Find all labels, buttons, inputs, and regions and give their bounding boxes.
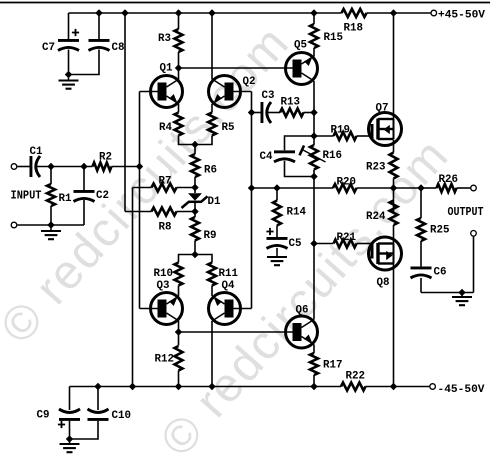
resistor R8 <box>152 208 177 216</box>
wire R1 bottom lead <box>50 206 52 225</box>
resistor R13 <box>280 109 304 117</box>
svg-text:C8: C8 <box>112 42 125 54</box>
resistor R12 <box>175 346 183 371</box>
label C9 <box>37 410 50 422</box>
wire C4 top branch <box>285 136 315 150</box>
svg-text:R5: R5 <box>222 122 235 134</box>
wire Q1 base lead <box>140 91 158 93</box>
junction dot C3 input node <box>248 109 255 116</box>
resistor R15 <box>310 24 318 48</box>
svg-text:Q5: Q5 <box>294 40 307 52</box>
wire R3 bottom lead <box>178 52 180 68</box>
junction dot R25 node <box>417 184 424 191</box>
label R1 <box>59 193 72 205</box>
resistor R20 <box>333 184 357 192</box>
svg-text:R3: R3 <box>158 33 171 45</box>
wire R25 to C6 <box>420 241 422 266</box>
svg-text:R7: R7 <box>159 176 172 188</box>
label C7 polarity + <box>72 29 79 36</box>
svg-text:C2: C2 <box>96 190 109 202</box>
label C4 <box>260 151 273 163</box>
wire R26 to output terminal <box>457 187 471 189</box>
label R23 <box>366 162 386 174</box>
ground output <box>452 293 472 306</box>
wire R13 right lead <box>304 112 315 114</box>
label R17 <box>323 360 343 372</box>
label C8 <box>112 42 125 54</box>
ground input <box>41 225 61 239</box>
resistor R5 <box>208 113 216 136</box>
junction dot C9-C10 ground node <box>66 435 73 442</box>
wire R3 top lead <box>178 13 180 29</box>
svg-text:R6: R6 <box>204 165 217 177</box>
terminal +45-50V <box>431 10 437 16</box>
wire R1 top lead <box>50 167 52 185</box>
resistor R26 <box>437 184 457 192</box>
capacitor C9 <box>59 409 80 421</box>
resistor R6 <box>191 154 199 177</box>
transistor Q5 <box>286 53 318 85</box>
wire C3 to R13 <box>268 112 280 114</box>
svg-text:R1: R1 <box>59 193 72 205</box>
label Q8 <box>377 277 390 289</box>
label C2 <box>96 190 109 202</box>
label R7 <box>159 176 172 188</box>
terminal input bottom <box>11 222 17 228</box>
wire R9 bottom lead <box>194 241 196 255</box>
junction dot C7-C8 ground node <box>65 71 72 78</box>
wire R20 to output node <box>357 187 394 189</box>
junction dot R16-C4 bottom node <box>310 173 317 180</box>
svg-text:R9: R9 <box>204 230 217 242</box>
resistor R16 trimmer <box>300 145 326 170</box>
label Q5 <box>294 40 307 52</box>
label C5 polarity + <box>266 228 273 235</box>
resistor R18 <box>342 9 367 17</box>
wire C2 bottom lead <box>83 200 85 225</box>
resistor R17 <box>310 353 318 375</box>
resistor R2 <box>93 163 112 171</box>
resistor R4 <box>175 113 183 136</box>
svg-text:R23: R23 <box>366 162 386 174</box>
wire C10 top lead <box>97 387 99 411</box>
wire Q6 emitter lead <box>313 345 315 354</box>
svg-text:C4: C4 <box>260 151 273 163</box>
wire -45V rail left segment <box>70 386 342 388</box>
wire C8 top lead <box>98 13 100 39</box>
junction dot R21 node <box>310 240 317 247</box>
wire R8 right lead <box>177 211 196 213</box>
resistor R21 <box>334 240 357 248</box>
transistor Q4 <box>209 293 241 325</box>
resistor R22 <box>341 383 366 391</box>
wire feedback bus <box>252 187 334 189</box>
resistor R10 <box>175 263 183 286</box>
label Q6 <box>296 305 309 317</box>
label R18 <box>344 23 364 35</box>
svg-text:R2: R2 <box>99 152 112 164</box>
junction dot R17 rail tap <box>310 383 317 390</box>
svg-text:Q8: Q8 <box>377 277 390 289</box>
svg-text:Q1: Q1 <box>160 63 173 75</box>
svg-text:Q4: Q4 <box>222 280 235 292</box>
resistor R9 <box>191 217 199 241</box>
wire C3 left lead <box>252 112 261 114</box>
svg-text:D1: D1 <box>208 196 221 208</box>
label R16 <box>323 150 343 162</box>
label -45-50V <box>438 384 485 396</box>
wire R15 top lead <box>313 13 315 24</box>
svg-text:R12: R12 <box>155 354 175 366</box>
junction dot R1 top <box>47 163 54 170</box>
wire R14 top lead <box>276 188 278 201</box>
svg-text:Q6: Q6 <box>296 305 309 317</box>
svg-text:R17: R17 <box>323 360 343 372</box>
wire R10 to Q3 collector <box>178 286 180 297</box>
capacitor C8 <box>89 39 110 51</box>
wire C4 bottom branch <box>285 161 315 177</box>
svg-text:R13: R13 <box>281 97 301 109</box>
svg-text:C5: C5 <box>289 238 302 250</box>
label R8 <box>159 222 172 234</box>
label OUTPUT <box>448 206 484 219</box>
svg-text:R21: R21 <box>337 232 357 244</box>
svg-text:R26: R26 <box>439 174 459 186</box>
label C3 <box>262 90 275 102</box>
wire tail to R10 <box>179 255 196 263</box>
junction dot R12 rail tap <box>175 383 182 390</box>
terminal -45-50V <box>430 384 436 390</box>
label R22 <box>346 371 366 383</box>
label R20 <box>337 177 357 189</box>
wire output node to R25 <box>394 187 422 189</box>
wire R6 bottom lead <box>194 177 196 188</box>
junction dot R19-C4 node <box>310 132 317 139</box>
wire C9 bottom lead <box>69 421 71 439</box>
wire C5 bottom lead <box>276 248 278 252</box>
wire R25 top lead <box>420 188 422 218</box>
junction dot R3 rail tap <box>175 9 182 16</box>
wire input to C1 <box>17 166 29 168</box>
junction dot R8 rail tap <box>121 9 128 16</box>
junction dot Q4 rail tap <box>208 383 215 390</box>
wire Q2 emitter lead <box>211 104 213 113</box>
junction dot C10 rail tap <box>94 383 101 390</box>
wire R21 to Q8 gate <box>357 243 371 245</box>
wire Q2 collector to rail <box>211 13 213 80</box>
mosfet Q7 <box>369 113 402 146</box>
wire R9 top lead <box>194 212 196 218</box>
label C9 polarity + <box>58 421 65 428</box>
label R5 <box>222 122 235 134</box>
svg-text:Q3: Q3 <box>157 280 170 292</box>
wire Q2/Q4 base feedback column <box>251 92 253 309</box>
wire output ground line <box>421 292 474 294</box>
junction dot R15 rail tap <box>310 9 317 16</box>
junction dot D1 cathode node <box>191 208 198 215</box>
wire input ground line <box>17 224 84 226</box>
wire R8 left lead <box>125 211 152 213</box>
transistor Q1 <box>151 76 183 108</box>
wire Q4 base lead <box>234 308 252 310</box>
junction dot feedback column node <box>248 184 255 191</box>
capacitor C10 <box>88 409 109 421</box>
wire C2 top lead <box>83 167 85 191</box>
svg-text:Q2: Q2 <box>243 76 256 88</box>
svg-text:R25: R25 <box>430 225 450 237</box>
resistor R19 <box>334 132 357 140</box>
svg-text:R24: R24 <box>366 211 386 223</box>
label Q1 <box>160 63 173 75</box>
wire Q1 collector lead <box>178 68 180 80</box>
svg-text:R19: R19 <box>331 125 351 137</box>
label R3 <box>158 33 171 45</box>
resistor R23 <box>390 153 398 179</box>
svg-text:C6: C6 <box>434 267 447 279</box>
capacitor C1 <box>30 156 41 177</box>
wire R23 bottom lead <box>393 179 395 189</box>
capacitor C3 <box>261 102 272 123</box>
resistor R3 <box>175 29 183 52</box>
label R11 <box>219 268 239 280</box>
wire Q1 collector to Q5 base <box>179 67 294 69</box>
wire Q3 emitter lead <box>178 321 180 332</box>
label Q4 <box>222 280 235 292</box>
label R21 <box>337 232 357 244</box>
wire R11 to Q4 collector <box>211 286 213 297</box>
junction dot output ground node <box>458 289 465 296</box>
wire Q7 source lead <box>393 140 395 153</box>
junction dot D1 anode node <box>191 184 198 191</box>
label Q7 <box>376 103 389 115</box>
svg-text:R14: R14 <box>287 207 307 219</box>
wire R7 left lead <box>133 187 152 189</box>
junction dot output node <box>390 184 397 191</box>
wire R15 bottom lead <box>313 48 315 57</box>
svg-text:C10: C10 <box>112 410 132 422</box>
label R10 <box>154 268 174 280</box>
label R12 <box>155 354 175 366</box>
svg-text:R10: R10 <box>154 268 174 280</box>
resistor R7 <box>152 184 177 192</box>
wire VAS column lower <box>313 177 315 320</box>
wire Q8 drain to -rail <box>393 264 395 387</box>
label R14 <box>287 207 307 219</box>
ground under C7/C8 <box>59 75 79 89</box>
svg-text:R18: R18 <box>344 23 364 35</box>
wire C9 top lead <box>69 387 71 411</box>
label R4 <box>159 122 172 134</box>
label INPUT <box>11 190 42 203</box>
wire C6 bottom lead <box>420 278 422 293</box>
svg-text:+45-50V: +45-50V <box>438 10 485 22</box>
label C6 <box>434 267 447 279</box>
transistor Q3 <box>151 293 183 325</box>
label C5 <box>289 238 302 250</box>
wire C10 bottom lead <box>70 421 99 439</box>
label R6 <box>204 165 217 177</box>
capacitor C2 <box>74 190 95 202</box>
label R19 <box>331 125 351 137</box>
wire C1 to R2 <box>37 166 93 168</box>
wire top rail right segment <box>367 12 431 14</box>
svg-text:INPUT: INPUT <box>11 190 42 203</box>
wire C8 bottom to junction <box>69 50 100 75</box>
junction dot Q3 output node <box>175 328 182 335</box>
svg-text:R11: R11 <box>219 268 239 280</box>
capacitor C6 <box>411 267 432 279</box>
wire R4 to tail <box>179 136 196 145</box>
wire R7 to -rail column <box>132 188 134 387</box>
svg-text:C7: C7 <box>42 42 55 54</box>
wire R7 right lead <box>177 187 196 189</box>
wire Q5 collector lead <box>313 81 315 113</box>
svg-text:C3: C3 <box>262 90 275 102</box>
wire output cold terminal lead <box>473 236 475 292</box>
wire Q3 base lead <box>140 308 158 310</box>
wire Q2 base lead <box>234 91 252 93</box>
label R2 <box>99 152 112 164</box>
wire R12 bottom lead <box>178 371 180 387</box>
svg-text:C1: C1 <box>30 146 43 158</box>
wire R16 top lead <box>313 136 315 145</box>
svg-text:R15: R15 <box>324 32 344 44</box>
label R15 <box>324 32 344 44</box>
resistor R25 <box>417 218 425 241</box>
capacitor C4 <box>274 150 295 162</box>
wire C7 top lead <box>68 13 70 39</box>
junction dot VAS node top <box>310 109 317 116</box>
label R26 <box>439 174 459 186</box>
wire R8 to +rail <box>124 13 126 212</box>
svg-text:OUTPUT: OUTPUT <box>448 206 484 219</box>
junction dot feedback input node <box>136 163 143 170</box>
label +45-50V <box>438 10 485 22</box>
label C1 <box>30 146 43 158</box>
wire R24 top lead <box>393 188 395 214</box>
svg-text:R16: R16 <box>323 150 343 162</box>
wire C7 bottom lead <box>68 50 70 75</box>
ground under C9/C10 <box>60 439 80 452</box>
wire R19 left lead <box>314 135 334 137</box>
junction dot R7 rail tap <box>129 383 136 390</box>
wire R24 bottom lead <box>393 225 395 244</box>
label C7 <box>42 42 55 54</box>
svg-text:R8: R8 <box>159 222 172 234</box>
capacitor C5 <box>267 237 288 249</box>
label D1 <box>208 196 221 208</box>
wire R5 to tail <box>195 136 212 145</box>
svg-text:C9: C9 <box>37 410 50 422</box>
svg-text:R4: R4 <box>159 122 172 134</box>
wire R16 bottom lead <box>313 170 315 177</box>
junction dot input ground node <box>47 221 54 228</box>
label C10 <box>112 410 132 422</box>
wire VAS column upper <box>313 113 315 137</box>
wire R12 top lead <box>178 332 180 346</box>
label R24 <box>366 211 386 223</box>
resistor R1 <box>47 184 55 206</box>
terminal output cold <box>471 231 477 237</box>
resistor R14 <box>273 201 281 226</box>
svg-text:R22: R22 <box>346 371 366 383</box>
wire R6 top lead <box>194 145 196 155</box>
junction dot R14 node <box>273 184 280 191</box>
wire Q1/Q3 base column <box>139 92 141 309</box>
label R25 <box>430 225 450 237</box>
junction dot Q8 rail tap <box>390 383 397 390</box>
svg-text:-45-50V: -45-50V <box>438 384 485 396</box>
transistor Q6 <box>286 316 318 348</box>
label Q3 <box>157 280 170 292</box>
wire Q3 to Q6 base <box>179 331 294 333</box>
terminal input top <box>11 164 17 170</box>
diode D1 <box>182 188 208 212</box>
wire Q7 drain <box>393 13 395 120</box>
label Q2 <box>243 76 256 88</box>
label R13 <box>281 97 301 109</box>
junction dot Q1 collector node <box>175 64 182 71</box>
wire Q1 emitter lead <box>178 104 180 113</box>
junction dot C8-rail <box>95 9 102 16</box>
capacitor C7 <box>58 39 79 51</box>
wire R19 to Q7 gate <box>357 135 371 137</box>
junction dot C2 top <box>80 163 87 170</box>
wire R21 left lead <box>314 243 334 245</box>
junction dot Q7 drain rail tap <box>390 9 397 16</box>
wire +45V top rail left segment <box>69 12 342 14</box>
junction dot R4-R5 tail <box>191 141 198 148</box>
junction dot R10-R11 tail <box>191 251 198 258</box>
svg-text:R20: R20 <box>337 177 357 189</box>
transistor Q2 <box>209 76 241 108</box>
terminal output hot <box>471 185 477 191</box>
svg-text:Q7: Q7 <box>376 103 389 115</box>
wire R25 node to R26 <box>421 187 437 189</box>
ground under C5 <box>267 252 287 265</box>
wire -45V rail right segment <box>366 386 430 388</box>
wire R14 to C5 <box>276 226 278 238</box>
label R9 <box>204 230 217 242</box>
wire R2 to Q1 base node <box>112 166 140 168</box>
junction dot Q2 collector rail tap <box>208 9 215 16</box>
wire tail to R11 <box>195 255 212 263</box>
resistor R24 <box>390 201 398 226</box>
wire Q4 emitter to -rail <box>211 321 213 387</box>
wire R17 bottom lead <box>313 375 315 387</box>
resistor R11 <box>208 263 216 286</box>
mosfet Q8 <box>369 237 402 270</box>
